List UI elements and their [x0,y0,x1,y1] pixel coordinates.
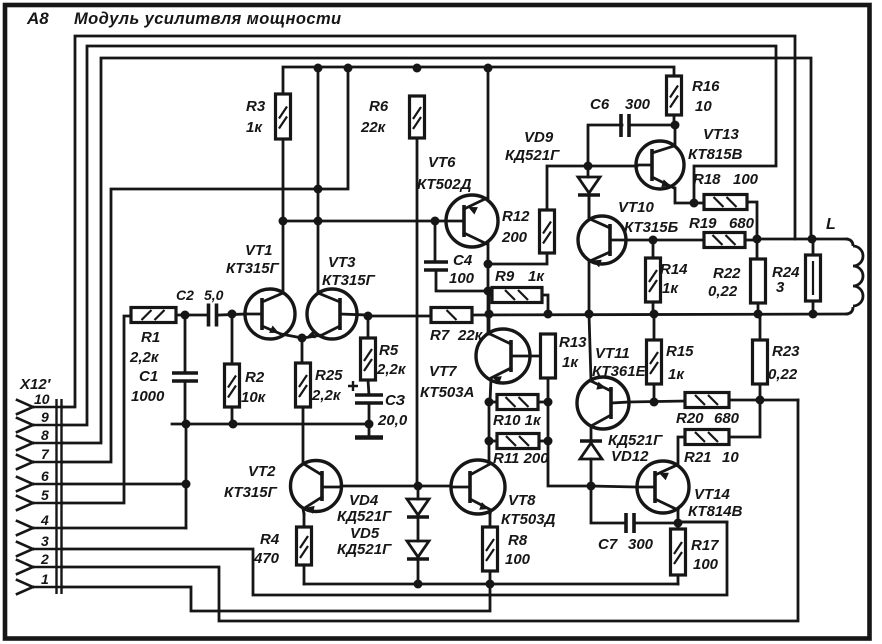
pin 6 of X12' [17,477,33,484]
svg-text:1к: 1к [528,268,545,285]
node R12 line-collector [484,260,493,269]
svg-text:КТ502Д: КТ502Д [417,176,472,193]
wire R25 bottom to VT2 collector [302,407,305,464]
node VD9 top [584,162,593,171]
svg-text:КТ815В: КТ815В [688,146,743,163]
svg-text:R9: R9 [495,268,515,285]
node VT3 base - R5 [364,312,373,321]
node R8-ground rail [486,580,495,589]
svg-text:R20: R20 [676,410,704,427]
svg-text:VT1: VT1 [245,242,273,259]
wire VT6 emitter riser from bus [487,68,490,198]
resistor R14 [646,258,661,302]
wire R23 stems [759,314,762,340]
transistor VT6 KT502D [446,195,498,247]
svg-text:R16: R16 [692,78,720,95]
svg-text:КТ361Е: КТ361Е [592,363,647,380]
transistor VT7 KT503A [476,329,530,383]
resistor R4 [297,527,312,565]
node VT11base-R15 [650,398,659,407]
svg-text:100: 100 [505,551,531,568]
wire signal ground rail y424 [172,423,369,426]
svg-text:8: 8 [41,427,49,443]
node R13-R10 [544,398,553,407]
capacitor C7 [591,486,626,523]
wire R24 stems [812,239,815,255]
node C3-rail [365,420,374,429]
node R13-R11 [544,437,553,446]
resistor R3 [276,94,291,139]
wire emitters to R25 [301,338,304,363]
svg-text:R4: R4 [260,531,280,548]
svg-text:КД521Г: КД521Г [337,541,392,558]
transistor VT1 KT315G [245,289,295,339]
svg-text:VD12: VD12 [611,448,649,465]
resistor R17 [671,529,686,575]
svg-text:200: 200 [501,229,528,246]
wire R14 stems [652,240,655,258]
node emitters VT1-VT3 [298,334,307,343]
wire VT7 emitter riser [488,402,491,463]
svg-text:VT13: VT13 [703,126,740,143]
node VT1 collector tap [279,217,288,226]
svg-text:VT2: VT2 [248,463,276,480]
svg-text:VT10: VT10 [618,199,655,216]
capacitor C6 [588,125,622,166]
wire R18 right riser [747,202,757,259]
wire VT11 emitter riser [589,314,591,381]
resistor R8 [483,527,498,571]
wire pin5 input riser to R1 [63,316,131,503]
pin 5 of X12' [17,496,33,503]
pin 10 of X12' [17,400,33,407]
resistor R25 [296,363,311,407]
wire R5 top stem [367,316,370,338]
node rail-R22R23 [754,310,763,319]
svg-text:6: 6 [41,468,49,484]
transistor VT14 KT814V [637,461,689,513]
svg-text:5,0: 5,0 [204,287,224,303]
wire R11 leads [489,440,497,443]
svg-text:1к: 1к [662,280,679,297]
wire pin7 to inner bus [63,68,348,462]
wire R13 bottom riser [548,378,591,486]
svg-text:L: L [826,216,836,233]
svg-text:VТ6: VТ6 [428,154,456,171]
pin 4 of X12' [17,521,33,528]
resistor R21 [685,430,729,445]
svg-text:680: 680 [729,215,755,232]
svg-text:10: 10 [722,449,739,466]
resistor R7 [431,308,472,323]
svg-text:100: 100 [693,556,719,573]
inductor L [845,239,853,314]
resistor R24 [806,255,821,301]
wire R8 stems [489,514,492,527]
svg-text:Модуль усилитвля мощности: Модуль усилитвля мощности [74,10,342,28]
svg-text:СЗ: СЗ [385,392,405,409]
diode VD12 KD521G [580,439,602,442]
svg-text:R8: R8 [508,532,528,549]
resistor R6 [410,96,425,138]
svg-text:4: 4 [40,512,49,528]
svg-text:КД521Г: КД521Г [337,508,392,525]
wire pin3 bottom run to VT14 collector node [63,522,727,595]
transistor VT2 KT315G [291,461,342,512]
svg-text:С6: С6 [590,96,610,113]
wire pin4 [63,527,186,530]
wire pin6/pin4 riser [185,424,188,528]
svg-text:100: 100 [733,171,759,188]
svg-text:VD9: VD9 [524,129,554,146]
wire VT1 collector riser / R3 bottom [282,138,285,293]
svg-text:0,22: 0,22 [768,366,798,383]
pin 1 of X12' [17,580,33,587]
svg-text:10к: 10к [241,389,267,406]
node rail-VT10VT11 [585,310,594,319]
resistor R12 [540,210,555,253]
wire pin10 wrap (top outer) [63,36,795,407]
wire pin9 wrap [63,46,776,425]
svg-text:КТ503А: КТ503А [420,384,474,401]
svg-text:КТ315Г: КТ315Г [224,484,278,501]
wire R17 bottom hook [677,575,680,584]
wire R20 right stub [729,399,760,402]
svg-text:R25: R25 [315,367,343,384]
resistor R9 [492,288,542,303]
wire C2 to VT1 base [219,314,246,315]
node VT3 riser - collector link [314,217,323,226]
svg-text:VD4: VD4 [349,492,379,509]
capacitor C3 plus sign [348,381,358,391]
svg-text:VD5: VD5 [350,525,380,542]
wire VD4 stem [417,486,420,499]
node VD4 top / VT8 base line [414,482,423,491]
svg-text:22к: 22к [360,119,387,136]
svg-text:R19: R19 [689,215,717,232]
svg-text:1к: 1к [246,119,263,136]
wire R6 bottom long riser [416,138,419,486]
resistor R11 [497,434,539,449]
wire R2 stems [231,314,234,364]
node C1-rail [182,420,191,429]
node bus-VT3 [314,64,323,73]
wire top supply bus y68 [283,67,674,94]
svg-text:R6: R6 [369,98,389,115]
wire ground rail y584 [304,583,678,586]
wire VT10 collector to VD9 [588,195,591,219]
pin 8 of X12' [17,436,33,443]
svg-text:КТ814В: КТ814В [688,503,743,520]
capacitor C1 [172,373,198,381]
node VT6 base - C4 [431,217,440,226]
resistor R13 [541,334,556,378]
wire pin6 to ground node [63,483,186,486]
wire speaker line y239 [757,238,847,241]
wire pin2 bottom run to R20/R21/R23 node [63,400,798,621]
svg-text:VT8: VT8 [508,492,536,509]
wire VT11 collector to VD12 [590,426,593,441]
node R1-C1 [181,311,190,320]
svg-text:10: 10 [34,391,50,407]
resistor R19 [704,233,745,248]
wire VT13 collector riser [674,125,677,146]
resistor R22 [751,259,766,303]
wire VD12 node to VT14 base [591,486,637,487]
svg-text:R17: R17 [691,537,719,554]
wire R19 right stub [745,239,757,242]
wire VT2 base to VD4 node [341,485,418,488]
transistor VT3 KT315G [307,289,357,339]
svg-text:7: 7 [41,446,50,462]
wire C1 bottom stem [184,381,187,424]
svg-text:VT3: VT3 [328,254,356,271]
wire VT6 collector down [487,244,490,334]
svg-text:1: 1 [41,571,49,587]
svg-text:VT11: VT11 [595,345,630,362]
wire R1 to C2 [176,314,206,317]
node pin6 junction [182,480,191,489]
svg-text:R12: R12 [502,208,530,225]
svg-text:1к: 1к [668,366,685,383]
svg-text:R21: R21 [684,449,712,466]
wire R21 left to VT14 emitter [678,437,685,465]
capacitor C3 [355,395,383,403]
svg-text:R10 1к: R10 1к [493,412,542,429]
node VT13 emitter-R18 [690,199,699,208]
svg-text:2,2к: 2,2к [311,387,342,404]
svg-text:R2: R2 [245,369,265,386]
pin 2 of X12' [17,560,33,567]
node bus-VT6 [484,64,493,73]
svg-text:3: 3 [776,279,785,296]
wire C3 stems [368,380,369,395]
resistor R18 [704,195,747,210]
svg-text:9: 9 [41,409,49,425]
wire R16 bottom stem [673,115,676,125]
node rail-R13 [544,310,553,319]
wire C4 bottom to VT6 collector line [436,270,488,291]
svg-text:R11 200: R11 200 [493,450,549,467]
wire VT14 collector down [677,510,680,529]
wire pin8 wrap [63,58,811,443]
wire R12 top link y166 [547,166,637,210]
node VT8collector-R11 [485,437,494,446]
wire VT10 emitter down to rail [588,261,591,314]
node VT1 base [228,310,237,319]
wire VD5 bottom stem [417,559,420,584]
transistor VT8 KT503D [451,460,505,514]
svg-text:R3: R3 [246,98,266,115]
node VD5-ground rail [414,580,423,589]
svg-text:R1: R1 [141,329,160,346]
svg-text:КТ503Д: КТ503Д [501,511,556,528]
svg-text:С2: С2 [176,287,194,303]
svg-text:КТ315Г: КТ315Г [226,260,280,277]
node VD12-VT14base [587,482,596,491]
wire node X to pin2 riser [760,399,798,402]
svg-text:VT14: VT14 [694,486,731,503]
svg-text:R5: R5 [379,342,399,359]
wire C6 right to R16 bottom [629,124,675,127]
node bus-R6 [413,64,422,73]
node C4-collector line [484,287,493,296]
svg-text:R18: R18 [693,171,721,188]
svg-text:10: 10 [695,98,712,115]
pin 7 of X12' [17,455,33,462]
resistor R16 [667,76,682,115]
svg-text:VT7: VT7 [429,363,457,380]
wire R9 right riser [542,295,548,314]
pin 9 of X12' [17,418,33,425]
resistor R23 [753,340,768,384]
node R18R19R22 [753,235,762,244]
svg-text:3: 3 [41,533,49,549]
resistor R2 [225,364,240,407]
svg-text:2,2к: 2,2к [129,349,160,366]
node R20R21R23 [756,396,765,405]
svg-text:С4: С4 [453,252,473,269]
resistor R5 [361,338,376,380]
wire VD12 bottom stem [590,459,593,486]
resistor R10 [497,395,538,410]
wire VT13 emitter down [675,188,704,203]
svg-text:R15: R15 [666,343,694,360]
svg-text:R14: R14 [660,261,688,278]
svg-text:R13: R13 [559,334,587,351]
svg-text:R23: R23 [772,343,800,360]
svg-text:КД521Г: КД521Г [608,432,663,449]
node R2-rail [229,420,238,429]
svg-text:R22: R22 [713,265,741,282]
svg-text:1000: 1000 [131,388,165,405]
transistor VT11 KT361E [577,377,629,429]
node rail-R14R15 [650,310,659,319]
svg-text:470: 470 [253,550,280,567]
wire output rail y314 [472,314,847,315]
resistor R15 [647,340,662,384]
wire VT11 base line to R20 [629,401,685,402]
wire R21 right riser [729,400,760,437]
wire VT8 base stub [418,485,451,488]
node bus-R3 [344,64,353,73]
svg-text:680: 680 [714,410,740,427]
svg-text:100: 100 [449,270,475,287]
wire R10 leads [489,401,497,404]
svg-text:1к: 1к [562,354,579,371]
node rail-VT7 [485,310,494,319]
wire VD4-VD5 stem [417,519,420,541]
node R16-C6-VT13collector [671,121,680,130]
svg-text:КТ315Г: КТ315Г [322,272,376,289]
svg-text:20,0: 20,0 [377,412,408,429]
wire VT3 collector riser [317,68,320,293]
diode VD9 KD521G [587,166,590,177]
diode VD4 KD521G [407,499,429,515]
resistor R1 [131,308,176,323]
svg-text:КД521Г: КД521Г [505,147,560,164]
wire R22 bottom stem [757,303,760,314]
wire C1 top stem [184,315,187,373]
svg-text:2: 2 [40,551,49,567]
node VT7emitter-R10 [485,398,494,407]
svg-text:С7: С7 [598,536,618,553]
wire VT14 node to pin3 riser [678,521,727,524]
svg-text:5: 5 [41,487,49,503]
ground for C3 [368,424,371,436]
svg-text:300: 300 [628,536,654,553]
node L-R24 top [808,235,817,244]
svg-text:0,22: 0,22 [708,283,738,300]
wire pin1 bottom run to ground rail [63,584,490,611]
svg-text:А8: А8 [26,9,49,28]
wire VT10 base line [627,239,704,242]
wire R9 left riser [489,294,492,297]
wire R12 bottom to VT6 collector line [488,253,547,264]
svg-text:2,2к: 2,2к [376,361,407,378]
capacitor C4 [434,221,437,262]
transistor VT10 KT315B [578,216,626,264]
wire VT3 base to R7 [368,315,431,318]
node VT3 riser - pin7 line [314,185,323,194]
svg-text:R7: R7 [430,327,450,344]
diode VD5 KD521G [407,541,429,557]
wire C7 right lead [634,522,678,525]
capacitor C2 [209,304,217,327]
node rail-R24L [809,310,818,319]
svg-text:С1: С1 [139,368,158,385]
node VT14coll-C7-R17 [674,519,683,528]
wire collector link y221 [283,220,435,223]
wire R15 stems [653,314,656,340]
resistor R20 [685,393,729,408]
wire R4 stems [303,514,306,527]
node VT10 base-R14 [649,236,658,245]
transistor VT13 KT815V [636,141,684,189]
svg-text:300: 300 [625,96,651,113]
pin 3 of X12' [17,542,33,549]
svg-text:КТ315Б: КТ315Б [624,219,679,236]
